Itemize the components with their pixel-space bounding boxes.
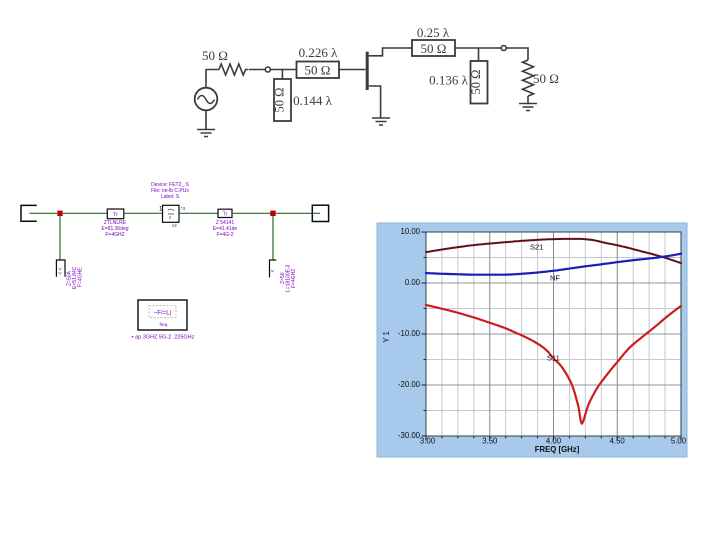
svg-text:F=4GHE: F=4GHE [78,267,84,287]
chart frame background [377,223,687,457]
wire TL2 to node 2 [455,47,501,49]
svg-text:50 Ω: 50 Ω [202,48,228,63]
svg-text:^3: ^3 [181,206,186,211]
open stub TL3 [56,260,65,277]
junction wire to stub2 [478,48,480,61]
svg-text:50 Ω: 50 Ω [533,71,559,86]
svg-text:F=4G-2: F=4G-2 [216,232,233,238]
wire TL5 to junction2 [232,212,271,214]
port P1 [21,205,37,221]
wire port1 to junction [30,212,58,214]
svg-text:Tr: Tr [223,212,228,218]
svg-text:FREQ [GHz]: FREQ [GHz] [535,445,580,454]
svg-text:-10.00: -10.00 [398,329,421,338]
transistor Q1 gate bar [366,52,369,90]
stub TL3 labels [67,266,84,289]
svg-text:50 Ω: 50 Ω [421,41,447,56]
svg-text:S11: S11 [547,354,560,363]
series TL1 0.226 lambda box [297,62,340,79]
svg-text:freq.: freq. [159,322,168,327]
svg-text:10.00: 10.00 [400,227,420,236]
svg-text:3.50: 3.50 [482,437,498,446]
TL5 labels [213,220,238,238]
wire source to ground [205,110,207,129]
major gridlines [490,232,618,436]
axis ticks [422,232,682,441]
svg-text:50 Ω: 50 Ω [469,70,483,95]
transistor drain wire [369,48,412,56]
svg-text:Tr: Tr [113,212,118,218]
open stub TL6 [270,260,277,278]
AC source VS [195,88,218,111]
wire junction1 to TL4 [63,212,107,214]
wire TL1 to gate [339,69,366,71]
junction wire to stub1 [281,70,283,80]
wire node2 to load [506,48,528,60]
svg-text:-30.00: -30.00 [398,431,421,440]
FET device box [159,205,186,228]
svg-text:Y 1: Y 1 [382,331,391,343]
wire junction2 to port2 [276,212,320,214]
wire source to resistor [206,70,219,88]
svg-text:~F/=L|: ~F/=L| [154,311,172,317]
junction node J2 [270,211,275,216]
svg-text:0.136 λ: 0.136 λ [429,73,469,88]
node 2 open circle [501,46,506,51]
plot border [426,232,681,436]
svg-text:50 Ω: 50 Ω [273,88,287,113]
curve S11 [426,305,681,424]
svg-text:v2: v2 [172,223,177,228]
plot area [426,232,681,436]
port P2 [312,205,328,221]
svg-text:F=4GHZ: F=4GHZ [105,232,124,238]
series TL5 box [218,209,232,218]
wire junction1 down to stub [59,216,61,260]
wire load to ground [527,96,529,103]
svg-text:Label: S: Label: S [161,194,180,200]
svg-text:3.00: 3.00 [420,437,436,446]
wire junction2 down to stub2 [272,216,274,260]
series TL2 0.25 lambda box [412,40,455,56]
svg-text:0.144 λ: 0.144 λ [293,93,333,108]
frequency control block [138,300,187,330]
wire TL4 to FET [124,212,163,214]
stub TL6 labels [280,264,297,292]
svg-text:▪ ap 3GHZ 5G-2 .225GHz: ▪ ap 3GHZ 5G-2 .225GHz [132,335,195,341]
wire FET to TL5 [179,212,218,214]
wire node1 to TL1 [270,69,296,71]
ground transistor [372,118,390,125]
svg-text:0.25 λ: 0.25 λ [417,25,450,40]
svg-text:-20.00: -20.00 [398,380,421,389]
svg-text:S21: S21 [530,243,543,252]
curve S21 [426,239,681,263]
curve NF [426,254,681,275]
transistor source wire [369,86,381,118]
minor gridlines [426,232,681,436]
open stub TL 0.136 lambda [469,61,488,104]
junction node J1 [57,211,62,216]
wire to node 1 [249,69,266,71]
open stub TL 0.144 lambda [273,79,292,121]
ground source [197,130,215,137]
resistor RL 50ohm vertical [523,60,534,96]
series TL4 box [107,209,124,219]
node 1 open circle [265,67,270,72]
TL4 labels [101,220,128,238]
svg-text:50 Ω: 50 Ω [305,63,331,78]
FET labels [151,182,189,200]
svg-text:5.00: 5.00 [671,437,687,446]
svg-text:0.226 λ: 0.226 λ [299,45,339,60]
svg-text:0.00: 0.00 [405,278,421,287]
resistor RS 50ohm [219,64,248,75]
svg-text:F=4GHZ: F=4GHZ [291,269,297,288]
svg-text:NF: NF [550,274,560,283]
ground load [519,104,537,111]
svg-text:4.50: 4.50 [610,437,626,446]
